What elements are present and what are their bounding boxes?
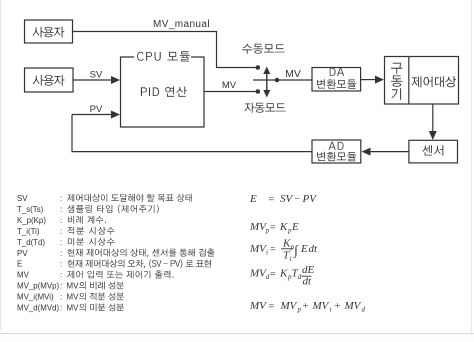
formula MVi = (Kp/Ti) Int E dt [249,238,318,264]
svg-text:dt: dt [303,276,313,288]
svg-text:MV: MV [17,271,30,280]
svg-text:=: = [269,195,275,206]
svg-text:T_d(Td): T_d(Td) [17,238,45,247]
svg-text:MV: MV [344,300,362,312]
svg-text::: : [60,227,62,236]
formula MVp = Kp E [249,221,299,235]
legend row E [17,259,211,269]
svg-text:MV: MV [249,243,267,255]
svg-text:MV_manual: MV_manual [153,19,210,30]
switch S1 common stub [253,79,277,81]
svg-text:MV_i(MVi): MV_i(MVi) [17,293,54,302]
svg-text:MV: MV [67,282,80,291]
svg-text:K: K [279,221,288,233]
legend row PV [17,249,215,258]
svg-text:−: − [295,194,301,205]
legend row SV [17,194,192,203]
label 변환모듈 (DA) [317,79,356,88]
svg-text:i: i [290,255,292,263]
svg-text:d: d [362,306,366,314]
label U2 사용자 [33,75,65,86]
label PID 연산 [141,87,187,97]
block DA 변환모듈 [312,68,361,92]
svg-text:MV: MV [280,300,298,312]
formula MV = MVp + MVi + MVd [249,300,366,314]
net label PV [90,104,103,115]
svg-text::: : [60,249,62,258]
svg-text:T_s(Ts): T_s(Ts) [17,205,44,214]
svg-text::: : [60,238,62,247]
wire SV: U2 to CPU [73,76,120,84]
svg-text::: : [60,304,62,313]
label 구동기 (vertical) [391,63,402,100]
block 구동기+제어대상 (plant) [385,57,459,105]
block AD 변환모듈 [312,140,361,163]
wire MV: switch to DA module [277,79,312,81]
svg-text:+: + [303,301,309,312]
wire MV: CPU to switch bottom contact [204,91,256,93]
svg-text::: : [60,271,62,280]
svg-text:MV: MV [222,80,237,91]
svg-text:PV: PV [17,249,28,258]
svg-text:E: E [291,221,299,233]
svg-text:MV: MV [285,68,301,80]
svg-text:MV: MV [249,300,267,312]
label DA [330,68,344,76]
svg-text:i: i [266,249,268,257]
block U1 사용자 (manual user) [25,20,73,43]
svg-text:MV: MV [249,221,267,233]
wire feedback AD to PV [72,115,312,152]
label CPU 모듈 [137,51,190,61]
svg-text:MV_p(MVp): MV_p(MVp) [17,282,59,291]
label 센서 [422,145,443,156]
svg-text:=: = [270,223,276,234]
net label MV (to DA) [285,68,301,80]
switch S1 contact dot top [255,65,260,70]
net label SV [90,70,103,81]
block U2 사용자 (setpoint user) [25,68,74,92]
legend row MV_d(MVd) [17,303,124,312]
switch S1 contact dot bottom [255,89,260,94]
svg-text:dE: dE [302,264,315,276]
svg-text:MV_d(MVd): MV_d(MVd) [17,304,59,313]
svg-text:MV: MV [249,268,267,280]
svg-text:SV: SV [280,193,294,205]
svg-text:K: K [279,268,288,280]
wire 센서 to AD [362,148,409,156]
formula E = SV - PV [249,193,317,206]
legend row T_i(Ti) [17,227,115,236]
svg-text:=: = [270,245,276,256]
svg-text:SV: SV [17,194,28,203]
switch S1 selector double-arrow [263,67,270,98]
svg-text::: : [60,194,62,203]
net label MV_manual [153,19,210,30]
svg-text:K_p(Kp): K_p(Kp) [17,216,46,225]
legend row MV_p(MVp) [17,282,124,291]
legend row K_p(Kp) [17,216,106,225]
svg-text:E: E [249,193,257,205]
svg-text:p: p [297,306,302,314]
mode label 수동모드 [242,44,285,54]
svg-text:+: + [335,301,341,312]
svg-text:=: = [270,269,276,280]
svg-text::: : [60,216,62,225]
legend row MV [17,271,174,280]
formula MVd = Kp Td dE/dt [249,264,315,288]
svg-text::: : [60,205,62,214]
switch S1 common dot [275,78,280,83]
svg-text:dt: dt [309,243,319,255]
svg-text:PV: PV [302,193,318,205]
label 제어대상 [412,76,457,87]
svg-text::: : [60,282,62,291]
svg-text:SV: SV [90,70,103,81]
svg-text:E: E [17,260,22,269]
svg-text:T_i(Ti): T_i(Ti) [17,227,40,236]
legend row T_d(Td) [17,238,115,247]
label AD [329,142,344,150]
legend row MV_i(MVi) [17,293,124,302]
wire PV into CPU [72,111,120,119]
svg-text:PV: PV [90,104,103,115]
svg-text:MV: MV [67,304,80,313]
label U1 사용자 [33,27,65,38]
label 변환모듈 (AD) [317,152,356,161]
svg-text::: : [60,293,62,302]
svg-text:MV: MV [312,300,330,312]
svg-text:MV: MV [67,293,80,302]
svg-text:E: E [300,243,308,255]
wire 제어대상 down to 센서 [429,104,437,140]
legend row T_s(Ts) [17,205,159,214]
block CPU 모듈 (container, top border gap) [121,57,205,127]
mode label 자동모드 [244,103,285,113]
svg-text:=: = [269,302,275,313]
svg-text:i: i [330,306,332,314]
net label MV (auto) [222,80,237,91]
wire DA to 구동기 [361,76,384,84]
svg-text::: : [60,260,62,269]
block 센서 (sensor) [409,140,458,163]
wire MV_manual: U1 to switch top contact [73,32,256,68]
